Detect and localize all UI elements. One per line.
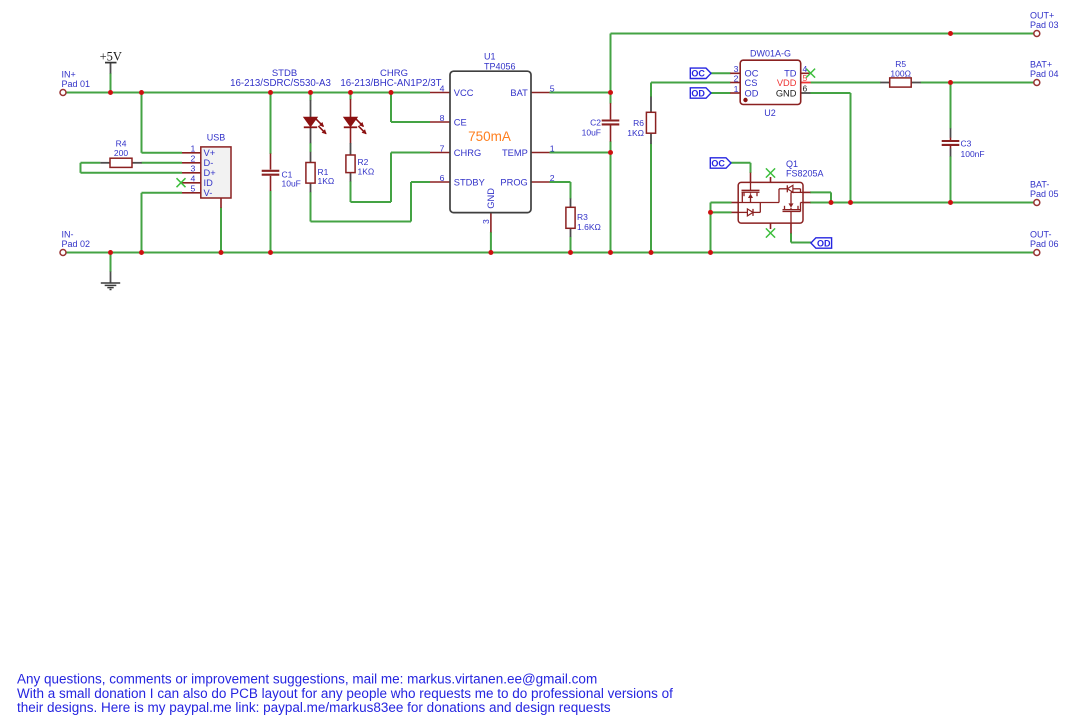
- svg-text:OC: OC: [711, 158, 725, 168]
- svg-text:750mA: 750mA: [468, 129, 511, 144]
- svg-text:VDD: VDD: [777, 78, 797, 88]
- svg-text:TP4056: TP4056: [484, 62, 516, 72]
- svg-text:Pad 04: Pad 04: [1030, 69, 1059, 79]
- svg-text:STDBY: STDBY: [454, 177, 485, 187]
- svg-text:6: 6: [440, 173, 445, 183]
- svg-text:1KΩ: 1KΩ: [627, 128, 644, 138]
- svg-text:Pad 05: Pad 05: [1030, 189, 1059, 199]
- svg-text:V-: V-: [204, 188, 213, 198]
- svg-text:10uF: 10uF: [282, 179, 301, 189]
- svg-text:1KΩ: 1KΩ: [358, 166, 375, 176]
- svg-text:Pad 01: Pad 01: [62, 79, 91, 89]
- svg-text:Pad 03: Pad 03: [1030, 20, 1059, 30]
- svg-text:R3: R3: [577, 212, 588, 222]
- svg-text:CE: CE: [454, 117, 467, 127]
- svg-text:10uF: 10uF: [582, 128, 601, 138]
- svg-text:VCC: VCC: [454, 88, 474, 98]
- svg-text:R5: R5: [895, 59, 906, 69]
- svg-text:OD: OD: [745, 88, 759, 98]
- svg-text:3: 3: [481, 219, 491, 224]
- svg-text:Any questions, comments or imp: Any questions, comments or improvement s…: [17, 672, 597, 687]
- svg-text:Q1: Q1: [786, 159, 798, 169]
- svg-text:C2: C2: [590, 118, 601, 128]
- svg-text:16-213/SDRC/S530-A3: 16-213/SDRC/S530-A3: [230, 78, 331, 89]
- svg-text:Pad 06: Pad 06: [1030, 239, 1059, 249]
- svg-text:FS8205A: FS8205A: [786, 169, 824, 179]
- svg-text:100nF: 100nF: [961, 149, 985, 159]
- svg-text:With a small donation I can al: With a small donation I can also do PCB …: [17, 686, 673, 701]
- svg-text:U2: U2: [764, 108, 776, 118]
- svg-text:U1: U1: [484, 52, 496, 62]
- svg-text:ID: ID: [204, 178, 214, 188]
- svg-text:4: 4: [440, 83, 445, 93]
- svg-text:C3: C3: [961, 139, 972, 149]
- svg-text:PROG: PROG: [500, 177, 527, 187]
- svg-text:2: 2: [550, 173, 555, 183]
- svg-text:+5V: +5V: [100, 50, 122, 64]
- svg-text:GND: GND: [486, 188, 496, 209]
- svg-text:D+: D+: [204, 168, 216, 178]
- svg-text:5: 5: [803, 73, 808, 83]
- svg-text:8: 8: [440, 113, 445, 123]
- svg-text:2: 2: [190, 154, 195, 164]
- svg-text:100Ω: 100Ω: [890, 68, 911, 78]
- svg-text:Pad 02: Pad 02: [62, 239, 91, 249]
- svg-text:16-213/BHC-AN1P2/3T: 16-213/BHC-AN1P2/3T: [340, 78, 441, 89]
- svg-text:1: 1: [734, 84, 739, 94]
- svg-text:GND: GND: [776, 88, 797, 98]
- svg-text:OC: OC: [691, 69, 705, 79]
- svg-text:OD: OD: [691, 88, 705, 98]
- svg-text:CS: CS: [745, 78, 758, 88]
- svg-text:7: 7: [440, 143, 445, 153]
- svg-text:OD: OD: [817, 238, 831, 248]
- svg-text:3: 3: [190, 164, 195, 174]
- svg-text:CHRG: CHRG: [454, 148, 481, 158]
- svg-text:their designs. Here is my payp: their designs. Here is my paypal.me link…: [17, 700, 611, 715]
- svg-text:5: 5: [550, 83, 555, 93]
- svg-text:4: 4: [190, 174, 195, 184]
- svg-text:1: 1: [190, 144, 195, 154]
- svg-text:200: 200: [114, 148, 128, 158]
- svg-text:1: 1: [550, 143, 555, 153]
- svg-text:D-: D-: [204, 158, 214, 168]
- svg-text:2: 2: [734, 73, 739, 83]
- svg-text:1KΩ: 1KΩ: [318, 176, 335, 186]
- svg-text:BAT: BAT: [510, 88, 528, 98]
- svg-text:DW01A-G: DW01A-G: [750, 49, 791, 59]
- svg-text:V+: V+: [204, 148, 216, 158]
- svg-text:TEMP: TEMP: [502, 148, 528, 158]
- svg-text:5: 5: [190, 184, 195, 194]
- svg-text:1.6KΩ: 1.6KΩ: [577, 222, 601, 232]
- svg-text:USB: USB: [207, 133, 226, 143]
- svg-text:6: 6: [803, 84, 808, 94]
- svg-text:R6: R6: [633, 118, 644, 128]
